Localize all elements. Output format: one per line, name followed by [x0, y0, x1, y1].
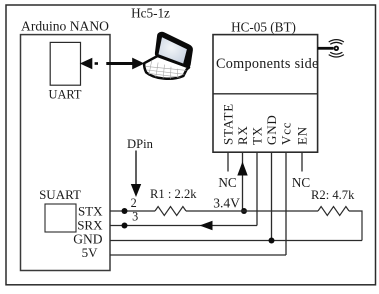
svg-text:SUART: SUART	[39, 187, 81, 202]
wire 5V row	[110, 254, 286, 256]
svg-text:Vcc: Vcc	[278, 122, 293, 145]
pin GND	[271, 152, 273, 241]
UART block	[50, 42, 80, 85]
svg-text:RX: RX	[235, 125, 250, 145]
svg-text:R1 : 2.2k: R1 : 2.2k	[150, 187, 197, 201]
svg-text:NC: NC	[218, 175, 237, 190]
svg-text:3.4V: 3.4V	[213, 196, 240, 211]
svg-text:HC-05 (BT): HC-05 (BT)	[231, 20, 296, 35]
svg-text:Arduino NANO: Arduino NANO	[21, 19, 109, 34]
pin Vcc	[285, 152, 287, 255]
solid arrow to laptop	[106, 62, 133, 65]
junction pin3	[122, 223, 128, 229]
svg-text:STATE: STATE	[220, 103, 235, 145]
pin STATE	[227, 152, 229, 172]
svg-text:3: 3	[132, 209, 138, 223]
wire GND row	[110, 240, 362, 242]
resistor R2	[318, 207, 349, 216]
dashed arrow to UART	[80, 58, 93, 70]
svg-text:GND: GND	[264, 114, 279, 145]
antenna	[318, 47, 334, 50]
arrow DPin	[135, 151, 137, 186]
svg-text:STX: STX	[78, 203, 103, 218]
svg-text:2: 2	[131, 196, 137, 210]
svg-text:EN: EN	[294, 126, 309, 145]
svg-text:UART: UART	[49, 87, 82, 101]
arrow toward SRX	[200, 221, 213, 231]
wire from R1 to R2	[186, 210, 318, 212]
svg-text:NC: NC	[292, 175, 311, 190]
pin RX	[242, 152, 244, 211]
wire STX row (pin 2)	[110, 210, 155, 212]
pin EN	[301, 152, 303, 172]
laptop icon	[144, 33, 192, 81]
junction GND pin	[269, 238, 275, 244]
svg-text:R2: 4.7k: R2: 4.7k	[311, 188, 355, 202]
wire R2 to GND row	[349, 211, 362, 241]
svg-text:DPin: DPin	[127, 137, 154, 151]
svg-text:Hc5-1z: Hc5-1z	[131, 6, 170, 21]
resistor R1	[155, 207, 186, 216]
svg-text:5V: 5V	[82, 245, 99, 260]
wire SRX row (pin 3)	[110, 225, 257, 227]
svg-text:Components side: Components side	[216, 56, 319, 72]
junction pin2	[122, 208, 128, 214]
pin TX	[256, 152, 258, 226]
svg-text:SRX: SRX	[77, 218, 103, 233]
svg-text:TX: TX	[249, 126, 264, 145]
